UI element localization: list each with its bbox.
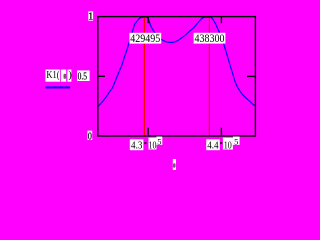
- svg-text:4.3: 4.3: [131, 140, 143, 152]
- x tick label 4.3x10^5: [130, 139, 144, 150]
- svg-text:429495: 429495: [130, 33, 160, 45]
- y tick label 1: [88, 11, 93, 20]
- svg-text:5: 5: [234, 137, 238, 147]
- red marker line at 438300: [208, 17, 210, 135]
- plot axis box: [98, 17, 256, 136]
- svg-text:K1(: K1(: [46, 69, 59, 81]
- marker label 438300: [194, 33, 226, 44]
- svg-text:10: 10: [224, 140, 232, 152]
- bottom tick 4.4e5: [220, 128, 222, 136]
- bottom tick 4.3e5: [147, 128, 149, 136]
- blue curve K1 trace: [98, 17, 255, 106]
- marker label 429495: [129, 33, 161, 44]
- top tick 4.3e5: [147, 17, 149, 23]
- magenta background: [0, 0, 272, 170]
- svg-text:438300: 438300: [195, 33, 225, 45]
- blue selection underline: [45, 86, 70, 88]
- svg-text:10: 10: [149, 140, 157, 152]
- svg-text:0: 0: [88, 131, 92, 142]
- y axis expression K1(: [45, 70, 60, 82]
- red marker line at 429495: [143, 17, 145, 135]
- y tick label 0.5: [77, 70, 90, 81]
- svg-text:5: 5: [157, 137, 161, 147]
- x tick label 4.4x10^5: [206, 139, 220, 150]
- x axis variable label: [173, 159, 176, 170]
- svg-text:4.4: 4.4: [207, 140, 219, 152]
- svg-text:1: 1: [88, 12, 93, 23]
- y axis argument placeholder: [61, 70, 66, 82]
- y axis closing paren: [67, 70, 71, 82]
- svg-text:): ): [68, 69, 72, 81]
- right tick 0.5: [247, 75, 255, 77]
- y tick label 0: [87, 131, 92, 140]
- svg-text:0.5: 0.5: [78, 71, 87, 82]
- top tick 4.4e5: [220, 17, 222, 23]
- left tick 0.5: [98, 75, 105, 77]
